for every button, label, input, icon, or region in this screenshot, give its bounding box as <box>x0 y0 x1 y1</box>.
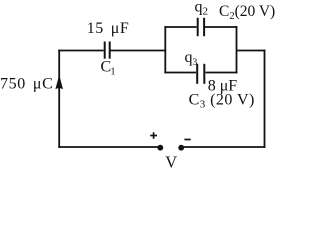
battery plus sign <box>150 132 157 139</box>
wire bottom branch left <box>164 72 196 74</box>
wire right bus vertical <box>236 26 238 73</box>
wire mid right connector <box>237 50 266 52</box>
current arrow on left wire <box>55 75 63 90</box>
wire left bus vertical <box>164 26 166 73</box>
wire outer right vertical <box>264 50 266 148</box>
capacitor C3 <box>197 64 204 84</box>
svg-text:C2(20 V): C2(20 V) <box>219 3 275 22</box>
wire top branch left <box>164 26 196 28</box>
wire top branch right <box>205 26 237 28</box>
wire bottom right segment <box>181 146 265 148</box>
capacitor C2 <box>198 18 204 36</box>
wire top right segment <box>111 50 167 52</box>
svg-text:C3 (20 V): C3 (20 V) <box>189 92 255 111</box>
battery terminal node right <box>178 145 184 151</box>
svg-text:C1: C1 <box>101 59 116 78</box>
wire top left segment <box>58 50 103 52</box>
svg-text:q3: q3 <box>185 49 198 68</box>
svg-text:750 μC: 750 μC <box>0 76 53 93</box>
battery terminal node left <box>157 145 163 151</box>
battery minus sign <box>184 139 190 141</box>
capacitor C1 <box>105 42 110 59</box>
wire bottom left segment <box>58 146 160 148</box>
svg-text:V: V <box>165 152 177 171</box>
svg-text:15 μF: 15 μF <box>87 20 129 37</box>
wire bottom branch right <box>205 72 237 74</box>
svg-text:q2: q2 <box>195 0 209 18</box>
wire left vertical <box>58 50 60 148</box>
